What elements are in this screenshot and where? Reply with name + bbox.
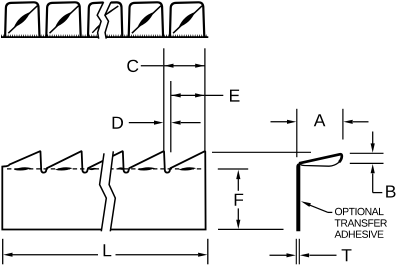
tooth 2 (top view) with slit mark xyxy=(46,2,80,37)
dimension B (flange rise) xyxy=(350,152,384,154)
tooth 3 (top view, broken) left piece xyxy=(88,3,104,38)
hidden surface dashed line (front view) xyxy=(7,168,204,170)
partial slit marks at break (front view) xyxy=(89,168,97,170)
strip cross-section vertical bar (edge view) xyxy=(296,163,300,231)
tooth 4 (top view) with slit mark xyxy=(129,2,163,37)
dimension A (flange width) xyxy=(296,109,298,157)
peak level extension line xyxy=(212,151,311,153)
dimension F (strip height) xyxy=(236,170,240,179)
slit marks on surface (front view) xyxy=(14,167,32,170)
serrated base edge (top view) xyxy=(1,34,208,38)
dimension E (tooth width) xyxy=(171,94,204,96)
tooth 5 (top view) with slit mark xyxy=(170,2,204,37)
break lines (top view) xyxy=(97,2,111,39)
folded flange (edge view) xyxy=(299,154,342,163)
extension line (tooth 5 right edge) xyxy=(204,48,206,151)
break lines (front view) xyxy=(100,150,116,232)
dimension T (thickness) xyxy=(295,239,297,264)
surface level extension line xyxy=(218,168,248,170)
dimension D (gap) xyxy=(129,122,155,124)
extension line (tooth 4 right edge) xyxy=(163,48,165,152)
dimension C (pitch) xyxy=(141,65,163,67)
leader: optional transfer adhesive note xyxy=(301,201,311,207)
dimension L (overall length) xyxy=(2,239,4,264)
strip body outline (front view) with saw teeth xyxy=(2,151,205,229)
bottom level extension line xyxy=(218,228,284,230)
extension line (tooth 5 left edge) xyxy=(170,81,172,152)
tooth 1 (top view) with slit mark xyxy=(5,2,39,37)
tooth 3 (top view, broken) right piece xyxy=(111,2,122,37)
